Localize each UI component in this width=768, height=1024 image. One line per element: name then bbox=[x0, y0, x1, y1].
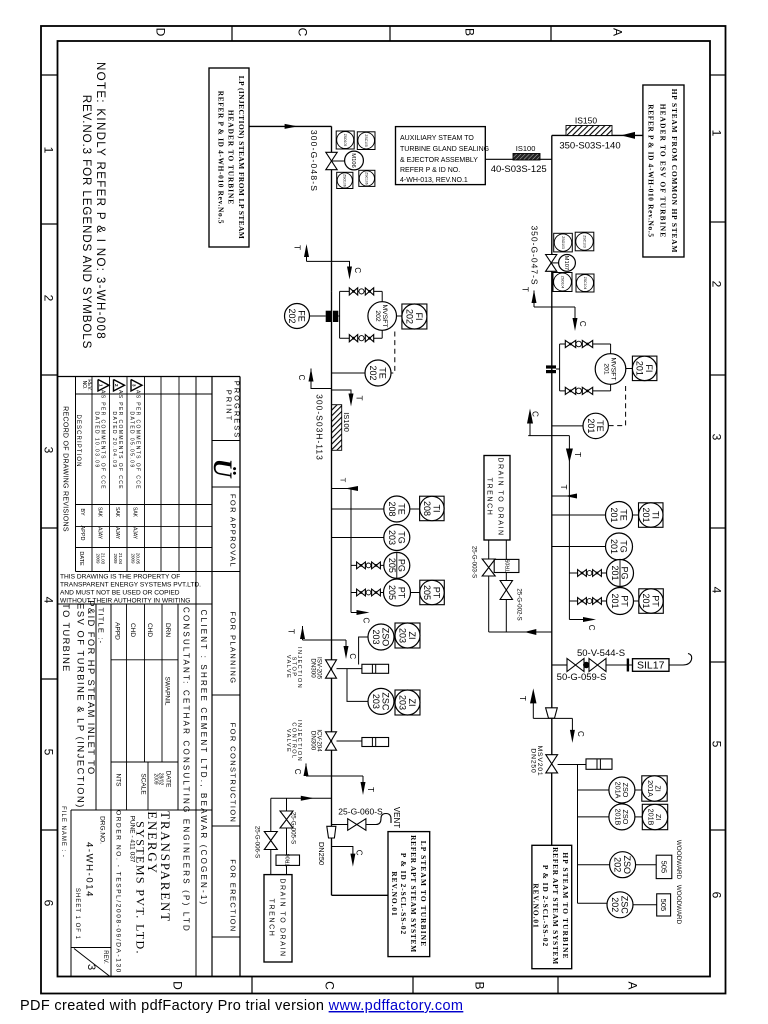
svg-text:FILE NAME : -: FILE NAME : - bbox=[60, 806, 66, 858]
svg-text:201A: 201A bbox=[646, 780, 655, 797]
svg-text:M106: M106 bbox=[350, 153, 356, 168]
svg-text:208: 208 bbox=[387, 501, 397, 516]
revision delta 2 bbox=[114, 380, 125, 392]
svg-text:DRG.NO.: DRG.NO. bbox=[99, 816, 106, 844]
svg-text:4-WH-013, REV.NO.1: 4-WH-013, REV.NO.1 bbox=[400, 177, 468, 184]
instrument PG 201 bbox=[607, 560, 634, 587]
svg-text:BY: BY bbox=[79, 508, 85, 516]
signal dashed MVSFT-TE201 bbox=[608, 386, 625, 426]
drn chd appd date scale grid bbox=[110, 604, 112, 977]
wire to governor 505 a bbox=[636, 864, 657, 866]
svg-text:ZSO104: ZSO104 bbox=[560, 276, 564, 289]
feeder end arrow C HP bbox=[569, 619, 585, 621]
record of drawing revisions strip bbox=[75, 377, 77, 572]
drain flow arrow HP bbox=[524, 629, 536, 635]
valve loop top 1 bbox=[349, 288, 353, 295]
wire TE201 tap bbox=[552, 514, 606, 516]
svg-text:P&ID FOR HP STEAM INLET TO: P&ID FOR HP STEAM INLET TO bbox=[86, 600, 96, 775]
svg-text:REV.NO.01: REV.NO.01 bbox=[532, 883, 541, 928]
svg-text:DRN: DRN bbox=[164, 623, 171, 637]
wire ZSO202 row bbox=[578, 864, 610, 866]
svg-text:202: 202 bbox=[404, 309, 414, 324]
wire valve to actuator M107 bbox=[552, 262, 559, 264]
svg-text:2: 2 bbox=[710, 281, 724, 288]
blind tick bbox=[627, 659, 629, 672]
svg-text:IS100: IS100 bbox=[342, 412, 351, 432]
svg-text:SWAPNIL: SWAPNIL bbox=[164, 676, 171, 705]
wire MVSFT to FI201 bbox=[626, 368, 633, 370]
svg-text:201: 201 bbox=[610, 593, 620, 608]
wire ZSC203 link bbox=[347, 669, 368, 702]
branch T C pair above ISV bbox=[303, 639, 347, 641]
svg-text:DN300: DN300 bbox=[309, 731, 316, 751]
branch T C pair below valve bbox=[534, 306, 575, 308]
wire PG205 manifold bbox=[351, 564, 384, 566]
svg-text:NTS: NTS bbox=[115, 774, 122, 788]
orifice flange FE202 bbox=[326, 311, 331, 322]
HP flow arrow bbox=[621, 132, 635, 139]
wire ZSO203 link bbox=[359, 637, 368, 665]
svg-text:P & ID 2-SCL-SS-02: P & ID 2-SCL-SS-02 bbox=[541, 865, 550, 947]
svg-text:T: T bbox=[355, 396, 364, 401]
svg-text:FOR ERECTION: FOR ERECTION bbox=[228, 859, 237, 932]
wire silencer line bbox=[552, 664, 567, 666]
svg-text:C: C bbox=[353, 267, 362, 273]
svg-text:DN300: DN300 bbox=[309, 658, 316, 678]
svg-text:208: 208 bbox=[422, 501, 432, 516]
svg-text:A: A bbox=[626, 981, 640, 989]
svg-text:40-S03S-125: 40-S03S-125 bbox=[491, 164, 547, 175]
drain trench box LP bbox=[264, 875, 292, 962]
svg-text:ZSO106: ZSO106 bbox=[343, 174, 347, 187]
valve 25-G-003-S bbox=[482, 559, 495, 568]
svg-text:TR05: TR05 bbox=[506, 559, 512, 572]
svg-text:1: 1 bbox=[710, 130, 724, 137]
svg-text:201: 201 bbox=[603, 363, 610, 375]
wire pipe instrument section HP bbox=[551, 436, 553, 665]
indicator FI 202 bbox=[402, 304, 427, 329]
valve PT205 b bbox=[372, 589, 376, 596]
property notice box bbox=[58, 603, 213, 605]
loop bottom mid circle bbox=[576, 388, 582, 394]
svg-text:WOODWARD: WOODWARD bbox=[675, 840, 682, 880]
svg-text:C: C bbox=[348, 653, 357, 659]
wire PT205 manifold bbox=[351, 592, 384, 594]
svg-text:25-G-060-S: 25-G-060-S bbox=[338, 807, 383, 817]
wire drain line 25-G-002-S bbox=[505, 540, 507, 559]
MSV actuator cylinder bbox=[586, 759, 612, 769]
instrument TG 201 bbox=[606, 533, 633, 560]
valve 25-G-060-S bbox=[348, 819, 357, 831]
wire MSV actuator bbox=[558, 764, 586, 766]
instrument ZSO 201B bbox=[609, 804, 635, 830]
svg-text:4: 4 bbox=[710, 587, 724, 594]
sheet inner frame bbox=[58, 41, 711, 977]
bottom zone ticks bbox=[251, 977, 253, 995]
valve loop bottom 1 bbox=[349, 335, 353, 342]
svg-text:TR06: TR06 bbox=[286, 854, 292, 867]
svg-text:6: 6 bbox=[42, 900, 56, 907]
loop bottom mid circle bbox=[359, 336, 364, 341]
svg-text:201: 201 bbox=[586, 418, 596, 433]
svg-text:T: T bbox=[293, 245, 302, 250]
svg-text:205: 205 bbox=[422, 585, 432, 600]
svg-text:201: 201 bbox=[641, 593, 651, 608]
svg-text:TURBINE GLAND SEALING: TURBINE GLAND SEALING bbox=[400, 146, 489, 153]
valve 50-V-544-S b bbox=[589, 659, 598, 672]
instrument ZSC 203 bbox=[368, 688, 394, 714]
svg-text:202: 202 bbox=[610, 897, 620, 912]
svg-text:PUNE - 411 037: PUNE - 411 037 bbox=[129, 816, 136, 863]
svg-text:3: 3 bbox=[42, 447, 56, 454]
silencer line dot bbox=[584, 662, 589, 667]
svg-text:205: 205 bbox=[387, 558, 397, 573]
svg-text:2: 2 bbox=[42, 295, 56, 302]
valve MSV201 main stop valve bbox=[546, 755, 558, 764]
svg-text:4-WH-014: 4-WH-014 bbox=[84, 842, 95, 898]
svg-text:WOODWARD: WOODWARD bbox=[675, 885, 682, 925]
svg-text:SCALE: SCALE bbox=[140, 773, 147, 795]
indicator ZI 203 b bbox=[395, 690, 420, 715]
instrument TE 201 bbox=[583, 413, 608, 438]
svg-text:C: C bbox=[296, 28, 310, 37]
svg-text:202: 202 bbox=[368, 365, 378, 380]
wire TG201 tap bbox=[552, 546, 606, 548]
wire PT201 manifold bbox=[569, 600, 606, 602]
silencer box SIL17 bbox=[633, 659, 670, 672]
HP source box bbox=[643, 85, 684, 257]
svg-text:ORDER NO. - TESPL/2008-09/DA-1: ORDER NO. - TESPL/2008-09/DA-130 bbox=[114, 810, 121, 974]
limit switch ZSO106 bbox=[337, 172, 353, 188]
feeder flow arrow T bbox=[566, 449, 573, 463]
actuator M106 bbox=[345, 151, 364, 170]
svg-text:ZSC103: ZSC103 bbox=[582, 235, 586, 248]
svg-text:LP STEAM TO TURBINE: LP STEAM TO TURBINE bbox=[419, 841, 428, 948]
svg-text:TRENCH: TRENCH bbox=[267, 899, 274, 938]
wire instrument feeder HP bbox=[568, 436, 570, 620]
limit switch ZSO103 bbox=[554, 233, 573, 252]
svg-text:C: C bbox=[531, 411, 540, 417]
PG201 mid circle bbox=[587, 571, 592, 576]
wire MVSFT202 bypass loop bbox=[338, 315, 339, 317]
svg-text:2009: 2009 bbox=[153, 773, 159, 784]
wire ZSC202 row bbox=[578, 902, 608, 904]
issue status column cells bbox=[212, 440, 240, 442]
svg-text:& EJECTOR ASSEMBLY: & EJECTOR ASSEMBLY bbox=[400, 157, 478, 164]
svg-text:ZSC104: ZSC104 bbox=[583, 277, 587, 290]
svg-text:5: 5 bbox=[710, 741, 724, 748]
svg-text:REFER APT STEAM SYSTEM: REFER APT STEAM SYSTEM bbox=[551, 847, 560, 965]
wire feeder junction bbox=[332, 488, 352, 490]
svg-text:1: 1 bbox=[42, 147, 56, 154]
drain trench box HP bbox=[484, 456, 510, 541]
svg-text:SAK: SAK bbox=[97, 507, 103, 518]
right zone ticks bbox=[710, 74, 726, 76]
svg-text:AJAY: AJAY bbox=[97, 527, 103, 540]
svg-text:TRENCH: TRENCH bbox=[485, 478, 492, 517]
svg-text:CLIENT : SHREE CEMENT LTD., BE: CLIENT : SHREE CEMENT LTD., BEAWAR (COGE… bbox=[199, 610, 208, 907]
valve 300-G-048-S motorized bbox=[326, 152, 337, 161]
wire instrument feeder LP bbox=[350, 489, 352, 613]
feeder flow arrow T bbox=[345, 486, 358, 491]
indicator PT 205 bbox=[420, 580, 445, 605]
wire MSV to HP outlet box bbox=[551, 773, 553, 845]
valve loop bottom 2 bbox=[582, 387, 587, 394]
svg-text:201A: 201A bbox=[614, 782, 623, 799]
branch C left HP bbox=[528, 435, 569, 437]
wire TE208 tap bbox=[332, 508, 384, 510]
svg-text:2009: 2009 bbox=[95, 553, 100, 564]
svg-text:2009: 2009 bbox=[113, 553, 118, 564]
svg-text:SAK: SAK bbox=[114, 507, 120, 518]
wire to SIL17 bbox=[606, 664, 633, 666]
svg-text:25-G-002-S: 25-G-002-S bbox=[516, 588, 523, 620]
valve 25-G-005-S bbox=[280, 811, 293, 820]
indicator PT 201 bbox=[639, 589, 664, 614]
instrument PG 205 bbox=[384, 552, 410, 578]
LP destination box bbox=[388, 832, 430, 957]
svg-text:DRAIN TO DRAIN: DRAIN TO DRAIN bbox=[278, 878, 285, 957]
valve PG201 a bbox=[578, 570, 582, 577]
wire TG203 tap bbox=[332, 537, 384, 539]
svg-text:P & ID 2-SCL-SS-02: P & ID 2-SCL-SS-02 bbox=[399, 853, 408, 935]
valve 25-G-002-S bbox=[500, 581, 512, 591]
svg-text:MVSFT: MVSFT bbox=[381, 304, 388, 327]
svg-text:B: B bbox=[473, 981, 487, 989]
svg-text:202: 202 bbox=[613, 857, 623, 872]
svg-text:203: 203 bbox=[398, 695, 408, 710]
svg-text:VENT: VENT bbox=[392, 807, 401, 828]
svg-text:DN250: DN250 bbox=[529, 748, 536, 773]
branch T right stub bbox=[332, 390, 352, 396]
svg-text:5: 5 bbox=[42, 749, 56, 756]
vent gooseneck bbox=[366, 814, 391, 825]
valve PT201 b bbox=[593, 598, 597, 605]
wire LP pipe upper bbox=[331, 126, 333, 262]
svg-text:C: C bbox=[297, 375, 306, 381]
svg-text:AJAY: AJAY bbox=[132, 527, 138, 540]
wire MVSFT201 bypass loop bbox=[556, 368, 560, 370]
wire pipe FE section bbox=[331, 291, 333, 390]
svg-text:A: A bbox=[611, 28, 625, 36]
wire LP pipe to branch C bbox=[331, 262, 333, 291]
svg-text:201B: 201B bbox=[647, 809, 656, 826]
wire SIL17 vent hook bbox=[669, 654, 692, 666]
reducer DN250 HP bbox=[546, 708, 558, 718]
wire HP pipe lower bbox=[551, 665, 553, 708]
limit switch ZSC105 bbox=[357, 132, 375, 150]
PT205 mid circle bbox=[366, 590, 371, 595]
valve 350-G-047-S motorized bbox=[546, 255, 557, 263]
branch T C pair above MSV bbox=[533, 717, 572, 719]
svg-text:D: D bbox=[171, 981, 185, 990]
svg-text:D: D bbox=[154, 28, 168, 37]
governor box 505 b bbox=[657, 894, 671, 916]
svg-text:203: 203 bbox=[371, 694, 381, 709]
svg-text:NO.: NO. bbox=[81, 381, 87, 390]
valve PG205 b bbox=[372, 562, 376, 569]
svg-text:PDF created with pdfFactory Pr: PDF created with pdfFactory Pro trial ve… bbox=[20, 998, 463, 1014]
svg-text:350-G-047-S: 350-G-047-S bbox=[530, 225, 540, 285]
wire drain header LP bbox=[271, 797, 332, 799]
instrument PT 201 bbox=[607, 588, 634, 615]
svg-text:HEADER TO TURBINE: HEADER TO TURBINE bbox=[226, 110, 235, 205]
ICV actuator cylinder bbox=[362, 738, 389, 747]
svg-text:MVSFT: MVSFT bbox=[610, 357, 617, 380]
svg-text:T: T bbox=[521, 287, 530, 292]
branch T left of valve bbox=[306, 246, 308, 261]
svg-text:201: 201 bbox=[609, 507, 619, 522]
svg-text:REV.NO.3 FOR LEGENDS AND S: REV.NO.3 FOR LEGENDS AND SYMBOLS bbox=[80, 95, 93, 350]
svg-text:TO TURBINE: TO TURBINE bbox=[61, 603, 71, 672]
svg-text:APPD: APPD bbox=[79, 526, 85, 541]
limit switch ZSO104 bbox=[553, 273, 572, 292]
wire ISV actuator bbox=[337, 668, 362, 670]
reducer DN300-DN250 bbox=[327, 826, 336, 838]
PG205 mid circle bbox=[366, 563, 371, 568]
svg-text:AJAY: AJAY bbox=[114, 527, 120, 540]
limit switch ZSO105 bbox=[336, 131, 354, 149]
svg-text:REFER P & ID 4-WH-010 Rev.No.5: REFER P & ID 4-WH-010 Rev.No.5 bbox=[646, 104, 655, 238]
svg-text:25-G-003-S: 25-G-003-S bbox=[470, 546, 477, 578]
svg-text:205: 205 bbox=[387, 585, 397, 600]
revision delta 1 bbox=[98, 380, 109, 392]
svg-text:DATED 10.03.09: DATED 10.03.09 bbox=[94, 411, 100, 468]
wire aux steam line 40-S03S-125 bbox=[485, 158, 552, 160]
instrument MVSFT 202 bbox=[368, 302, 397, 331]
svg-text:DATED 05.05.09: DATED 05.05.09 bbox=[129, 411, 135, 468]
svg-text:C: C bbox=[587, 625, 596, 631]
indicator ZI 201B bbox=[642, 804, 667, 829]
wire pipe ISV section bbox=[331, 640, 333, 895]
svg-text:REFER APT STEAM SYSTEM: REFER APT STEAM SYSTEM bbox=[409, 835, 418, 953]
actuator M107 bbox=[559, 255, 576, 272]
svg-text:DESCRIPTION: DESCRIPTION bbox=[75, 414, 81, 467]
wire to ZI201A bbox=[635, 789, 642, 791]
wire MVSFT to FI202 bbox=[397, 315, 403, 317]
svg-text:LP (INJECTION) STEAM FROM LP S: LP (INJECTION) STEAM FROM LP STEAM bbox=[237, 76, 246, 240]
svg-text:ESV OF TURBINE & LP (INJECTION: ESV OF TURBINE & LP (INJECTION) bbox=[76, 603, 86, 809]
governor box 505 a bbox=[656, 855, 672, 878]
loop top mid circle bbox=[359, 289, 364, 294]
instrument TE 208 bbox=[384, 496, 410, 522]
svg-text:6: 6 bbox=[710, 892, 724, 899]
wire drain header HP bbox=[489, 631, 552, 633]
valve ISV-205 injection stop valve bbox=[326, 660, 337, 669]
svg-text:Ü: Ü bbox=[208, 459, 237, 479]
svg-text:FOR PLANNING: FOR PLANNING bbox=[228, 611, 237, 684]
revision table grid bbox=[91, 377, 93, 572]
svg-text:3: 3 bbox=[710, 434, 724, 441]
svg-text:VALVE: VALVE bbox=[285, 655, 291, 679]
top zone ticks bbox=[231, 26, 233, 41]
client consultant columns bbox=[195, 377, 197, 977]
wire to governor 505 b bbox=[633, 904, 657, 906]
wire ICV actuator bbox=[337, 740, 362, 742]
svg-text:25-G-005-S: 25-G-005-S bbox=[290, 812, 297, 844]
svg-text:SHEET 1 OF 1: SHEET 1 OF 1 bbox=[74, 888, 80, 940]
svg-text:202: 202 bbox=[287, 308, 297, 323]
drain flow arrow bbox=[301, 796, 314, 801]
svg-text:T: T bbox=[559, 485, 568, 490]
wire MSV switch feeder bbox=[577, 765, 579, 904]
svg-text:50-V-544-S: 50-V-544-S bbox=[577, 648, 625, 659]
svg-text:AND MUST NOT BE USED OR: AND MUST NOT BE USED OR COPIED bbox=[60, 590, 180, 597]
indicator TI 201 bbox=[639, 503, 664, 528]
instrument PT 205 bbox=[384, 579, 411, 606]
signal dashed MVSFT-TE202 bbox=[391, 332, 395, 374]
branch C left bbox=[311, 369, 332, 389]
LP flow arrow bbox=[285, 124, 298, 129]
wire PG201 manifold bbox=[569, 572, 606, 574]
svg-text:201: 201 bbox=[635, 361, 645, 376]
wire to ZI201B bbox=[635, 816, 642, 818]
svg-text:DATE: DATE bbox=[78, 551, 84, 566]
svg-text:M107: M107 bbox=[563, 256, 569, 271]
svg-text:C: C bbox=[578, 321, 587, 327]
svg-text:CONSULTANT: CETHAR CONSULTING: CONSULTANT: CETHAR CONSULTING ENGINEERS … bbox=[182, 607, 191, 933]
svg-text:300-G-048-S: 300-G-048-S bbox=[309, 130, 319, 192]
instrument FE 202 bbox=[285, 304, 310, 329]
valve loop bottom 2 bbox=[365, 335, 369, 342]
svg-text:DN250: DN250 bbox=[317, 842, 326, 865]
svg-text:THIS DRAWING IS THE PROPER: THIS DRAWING IS THE PROPERTY OF bbox=[60, 574, 180, 581]
wire TE201a tap bbox=[552, 425, 583, 427]
valve 25-G-006-S bbox=[264, 832, 277, 841]
instrument ZSC 202 bbox=[607, 892, 633, 918]
spec break IS100 bbox=[332, 405, 342, 451]
wire drain line 25-G-006-S bbox=[270, 798, 272, 831]
svg-text:C: C bbox=[576, 731, 585, 737]
instrument ZSO 203 bbox=[368, 624, 394, 650]
svg-text:DATE: DATE bbox=[165, 771, 172, 789]
svg-text:PRINT: PRINT bbox=[224, 390, 233, 423]
wire pipe instrument section bbox=[331, 489, 333, 641]
svg-text:HP STEAM FROM COMMON HP STEAM: HP STEAM FROM COMMON HP STEAM bbox=[670, 89, 679, 254]
valve loop top 2 bbox=[365, 288, 369, 295]
svg-text:IS100: IS100 bbox=[516, 144, 536, 153]
trap TR05 bbox=[494, 559, 519, 572]
svg-text:4: 4 bbox=[42, 597, 56, 604]
svg-text:CHD: CHD bbox=[129, 623, 136, 637]
svg-text:T: T bbox=[518, 696, 527, 701]
svg-text:AUXILIARY STEAM TO: AUXILIARY STEAM TO bbox=[400, 135, 474, 142]
branch C below reducer bbox=[332, 847, 353, 857]
svg-text:25-G-006-S: 25-G-006-S bbox=[254, 826, 261, 858]
HP destination box bbox=[532, 845, 572, 968]
wire TE202 tap bbox=[332, 372, 366, 374]
svg-text:C: C bbox=[323, 981, 337, 990]
svg-text:203: 203 bbox=[387, 530, 397, 545]
wire ZSO201B row bbox=[578, 816, 609, 818]
valve PG201 b bbox=[593, 570, 597, 577]
svg-text:T: T bbox=[338, 478, 347, 483]
svg-text:202: 202 bbox=[374, 310, 381, 322]
svg-text:C: C bbox=[355, 850, 364, 856]
wire PT201 to indicator bbox=[634, 600, 639, 602]
svg-text:REV.NO.01: REV.NO.01 bbox=[390, 871, 399, 916]
limit switch ZSC104 bbox=[576, 274, 594, 292]
limit switch ZSC103 bbox=[575, 232, 594, 251]
wire pipe IS100 section bbox=[331, 390, 333, 489]
orifice flange HP bbox=[546, 365, 556, 368]
drg no cell bbox=[70, 810, 72, 977]
svg-text:203: 203 bbox=[398, 628, 408, 643]
PT201 mid circle bbox=[587, 599, 592, 604]
svg-text:SAK: SAK bbox=[132, 507, 138, 518]
svg-text:201: 201 bbox=[610, 565, 620, 580]
svg-text:505: 505 bbox=[659, 899, 668, 912]
